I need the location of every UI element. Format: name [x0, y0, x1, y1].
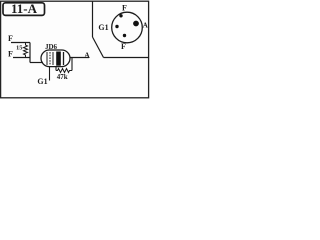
svg-text:11-A: 11-A — [11, 1, 38, 16]
wire grid lead G1 — [49, 66, 51, 80]
socket pin A right (large) — [133, 21, 139, 27]
svg-text:A: A — [84, 51, 90, 60]
wire to tube — [30, 62, 43, 64]
svg-text:F: F — [8, 50, 13, 59]
panel label box 11-A — [3, 1, 45, 16]
socket pin F bottom — [123, 34, 126, 37]
wire down to 47k — [71, 58, 73, 71]
svg-text:G1: G1 — [98, 23, 108, 32]
wire horizontal to right edge — [104, 57, 149, 59]
resistor 15 — [16, 43, 27, 58]
wire lower input horizontal — [13, 57, 30, 59]
svg-text:JD6: JD6 — [45, 43, 58, 51]
svg-text:15: 15 — [16, 44, 23, 51]
wire vertical junction — [29, 43, 31, 63]
tube grid wires — [47, 52, 53, 65]
socket pin G1 left — [115, 25, 118, 28]
wire top input horizontal — [11, 42, 30, 44]
wire plate output — [70, 57, 89, 59]
wire diagonal — [93, 37, 104, 58]
svg-text:A: A — [143, 21, 148, 29]
tube cathode bar (filled) — [56, 52, 61, 66]
svg-text:47k: 47k — [57, 73, 68, 81]
outer border frame — [1, 1, 149, 98]
socket connector circle — [112, 12, 143, 43]
socket pin F top — [119, 14, 122, 17]
wire from top edge — [92, 2, 94, 38]
resistor 47k — [56, 69, 72, 82]
wire tube bottom to 47k — [55, 66, 57, 70]
svg-text:F: F — [8, 34, 13, 43]
tube JD6 envelope — [41, 43, 70, 67]
svg-text:F: F — [121, 42, 126, 51]
tube anode line — [63, 52, 65, 65]
svg-text:F: F — [122, 4, 127, 13]
background — [0, 0, 150, 100]
svg-text:G1: G1 — [37, 77, 47, 86]
